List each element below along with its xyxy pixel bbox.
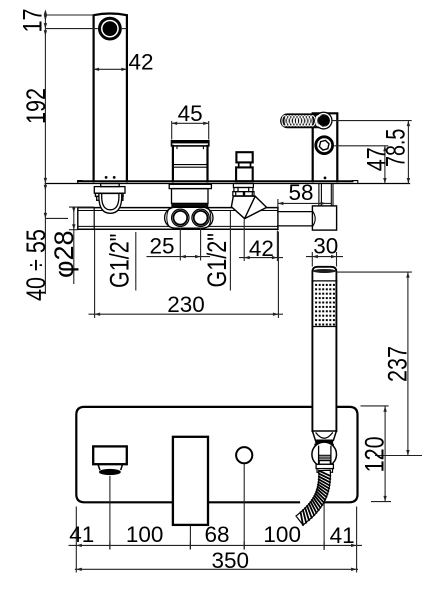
dim 120 <box>361 405 389 407</box>
svg-text:100: 100 <box>126 522 164 547</box>
dim 45 cartridge <box>171 121 173 140</box>
dim 237 <box>336 271 412 273</box>
dim 30 <box>311 252 313 267</box>
dim phi28 <box>73 207 75 284</box>
dark collar <box>315 440 334 444</box>
shower centerline extension (under hose) <box>323 475 325 550</box>
wand end cap <box>312 431 336 440</box>
spout front view <box>93 446 127 475</box>
holder hex screw <box>316 137 333 154</box>
spout aerator circle <box>98 17 122 41</box>
svg-text:350: 350 <box>212 548 250 573</box>
diverter under-deck stack <box>233 184 254 196</box>
G1/2 leader lines <box>135 232 137 291</box>
flexible hose front view <box>296 470 330 525</box>
svg-text:42: 42 <box>129 50 154 75</box>
mixer handle front view <box>173 437 208 525</box>
svg-text:42: 42 <box>249 236 274 261</box>
svg-text:237: 237 <box>383 346 413 382</box>
FRONT-VIEW <box>76 267 357 550</box>
svg-text:68: 68 <box>204 522 229 547</box>
svg-text:φ28: φ28 <box>49 230 79 278</box>
svg-text:41: 41 <box>330 523 355 548</box>
shower connector block <box>312 206 336 230</box>
spout undermount: neck, flange, nuts <box>94 184 125 201</box>
wand body <box>311 281 313 431</box>
cartridge under-deck flange and valve block <box>169 184 211 206</box>
holder small dot <box>324 177 327 180</box>
narrow tube to shower connector <box>278 212 314 226</box>
dim 58 <box>277 199 279 208</box>
svg-text:G1/2": G1/2" <box>105 234 135 288</box>
shower pipe through deck <box>319 184 333 206</box>
dim 42 spout width <box>94 68 127 70</box>
ext spout top <box>45 14 93 16</box>
valve body stadium with two seats <box>165 207 213 228</box>
svg-text:30: 30 <box>313 233 338 258</box>
wand 30-width head top <box>312 267 336 281</box>
deck screws dots <box>105 176 108 179</box>
body tube below deck <box>78 208 278 230</box>
shower wand side view (hangs from deck area) <box>312 267 337 473</box>
svg-text:25: 25 <box>149 233 174 258</box>
deck plate front view box <box>76 407 357 502</box>
ext aerator center <box>45 28 97 30</box>
svg-text:78.5: 78.5 <box>381 129 411 167</box>
dim 230 <box>94 230 96 318</box>
svg-text:40 ÷ 55: 40 ÷ 55 <box>22 229 52 301</box>
diverter cone outlet <box>231 196 266 218</box>
svg-text:120: 120 <box>360 436 390 472</box>
shower holder post above deck <box>313 113 338 181</box>
bottom chain dim 41/100/68/100/41 <box>75 507 77 573</box>
ext 40÷55 bottom tick <box>45 217 68 219</box>
svg-text:230: 230 <box>167 292 205 317</box>
dim 17 / 192 / 40÷55 vertical line <box>44 13 46 294</box>
svg-text:58: 58 <box>288 180 313 205</box>
dim 25 valve seats <box>179 228 181 261</box>
holder grip handle <box>281 112 333 130</box>
svg-text:41: 41 <box>69 522 94 547</box>
svg-text:17: 17 <box>18 8 48 32</box>
dim 42 diverter <box>243 220 245 262</box>
svg-text:100: 100 <box>263 522 301 547</box>
hose nut <box>319 461 330 465</box>
spout inlet U-bend <box>99 194 122 214</box>
cartridge column above deck <box>172 141 209 182</box>
dim 350 <box>75 568 358 570</box>
spout column <box>94 14 127 182</box>
ball joint <box>312 442 337 467</box>
svg-text:G1/2": G1/2" <box>203 233 233 287</box>
rotated labels <box>18 8 413 472</box>
svg-text:192: 192 <box>22 88 52 124</box>
dim 47 <box>334 145 388 147</box>
wand spray face dots <box>312 284 336 327</box>
diverter front view circle <box>236 447 252 463</box>
diverter knob above deck <box>236 152 253 181</box>
SIDE-VIEW <box>45 14 409 231</box>
deck plate <box>45 181 409 184</box>
dim 78.5 <box>331 120 411 122</box>
svg-text:45: 45 <box>178 101 203 126</box>
